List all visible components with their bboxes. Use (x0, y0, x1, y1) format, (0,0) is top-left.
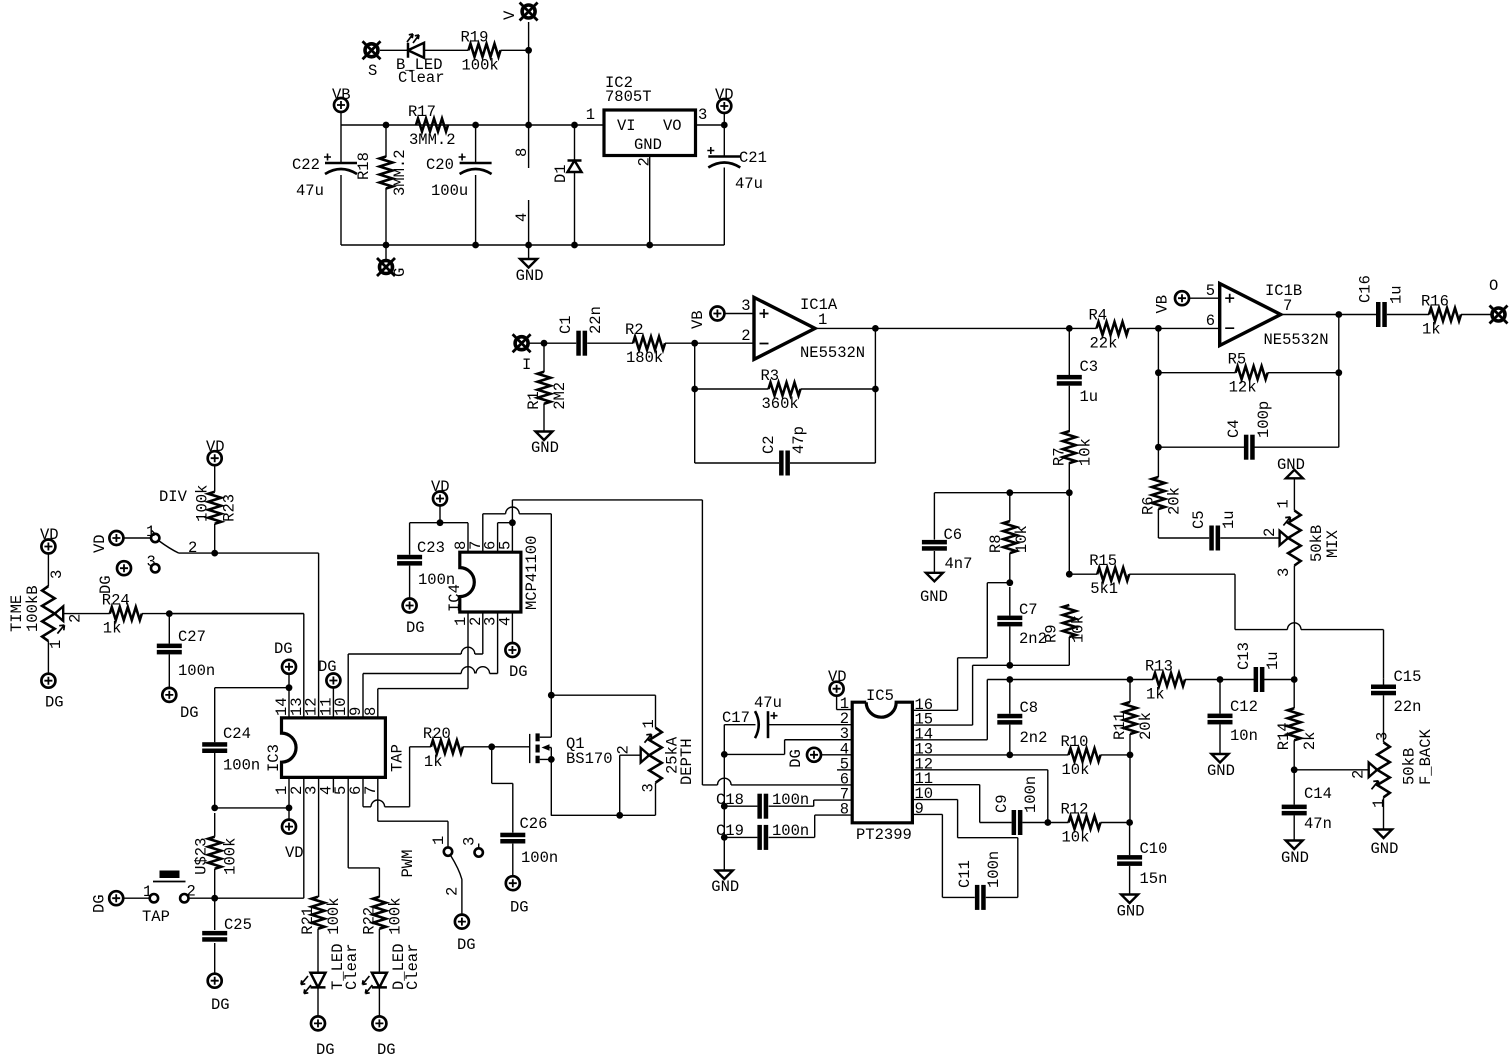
diode D1 (552, 161, 582, 184)
wire row 492 (934, 493, 1069, 575)
svg-text:47n: 47n (1304, 815, 1332, 833)
pin 8 IC3 label (362, 707, 380, 716)
resistor R2 (625, 321, 665, 367)
svg-text:3MM.2: 3MM.2 (409, 131, 456, 149)
svg-text:C14: C14 (1304, 785, 1332, 803)
svg-text:22k: 22k (1090, 334, 1118, 352)
svg-text:10k: 10k (1076, 438, 1094, 466)
svg-text:15n: 15n (1140, 870, 1168, 888)
wire VB to pin5 (1189, 297, 1220, 299)
svg-text:100p: 100p (1255, 401, 1273, 438)
node DG supply TAP (91, 891, 124, 913)
resistor R20 (423, 725, 463, 771)
svg-text:180k: 180k (626, 349, 663, 367)
resistor R24 (102, 592, 142, 638)
wire R24 right (142, 613, 304, 615)
svg-text:VD: VD (40, 526, 59, 544)
wire IC5 pin1 (837, 696, 853, 710)
capacitor C3 (1057, 358, 1098, 406)
pin 5 IC4 label (496, 541, 514, 550)
svg-text:4: 4 (513, 213, 531, 222)
pin 4 IC5 label (840, 740, 849, 758)
svg-text:DG: DG (180, 704, 199, 722)
resistor R17 (408, 103, 456, 149)
wire MIX pin3 down (1293, 566, 1295, 680)
wire R20-Q1 (463, 746, 530, 748)
ground GND C14 (1281, 841, 1309, 868)
node V connector (501, 3, 538, 21)
wire IC4 pin7 path (483, 507, 552, 695)
svg-text:20k: 20k (1137, 712, 1155, 740)
svg-text:GND: GND (1207, 762, 1235, 780)
svg-text:VB: VB (689, 310, 707, 329)
svg-text:Clear: Clear (343, 943, 361, 990)
junction rail-R18 (383, 122, 390, 129)
svg-text:C24: C24 (223, 725, 251, 743)
svg-text:R8: R8 (987, 534, 1005, 553)
svg-text:R16: R16 (1421, 293, 1449, 311)
svg-text:1: 1 (1370, 799, 1388, 808)
wire pin2 net (303, 777, 305, 898)
svg-text:1: 1 (47, 640, 65, 649)
wire C27 (168, 614, 170, 688)
svg-text:GND: GND (531, 439, 559, 457)
svg-text:R14: R14 (1275, 722, 1293, 750)
svg-text:R22: R22 (360, 907, 378, 935)
svg-text:U$23: U$23 (193, 838, 211, 875)
op-amp IC1A (741, 296, 865, 362)
capacitor C10 (1117, 840, 1167, 888)
junction TAP node (211, 895, 218, 902)
LED T_LED (301, 943, 361, 993)
op-amp IC1B (1206, 282, 1329, 349)
wire IC1B fb (1158, 328, 1338, 477)
wire R23 (214, 465, 216, 553)
svg-text:2n2: 2n2 (1020, 729, 1048, 747)
svg-text:10n: 10n (1230, 727, 1258, 745)
svg-text:1: 1 (1275, 499, 1293, 508)
svg-text:100kB: 100kB (24, 585, 42, 632)
svg-text:4n7: 4n7 (945, 555, 973, 573)
svg-text:47u: 47u (296, 182, 324, 200)
svg-text:VD: VD (91, 534, 109, 553)
svg-text:C7: C7 (1019, 601, 1038, 619)
junction DIV-R23 (211, 550, 218, 557)
resistor R4 (1089, 306, 1129, 352)
node DG supply DIV (97, 561, 131, 594)
svg-text:1: 1 (640, 719, 658, 728)
resistor R10 (1061, 733, 1101, 779)
capacitor C15 (1371, 668, 1421, 716)
junction R24-C27 (166, 610, 173, 617)
wire drain-depth (551, 695, 655, 728)
switch DIV (146, 488, 215, 572)
svg-text:100n: 100n (772, 791, 809, 809)
svg-text:R10: R10 (1061, 733, 1089, 751)
wire IC1B output (1254, 315, 1492, 448)
svg-text:C4: C4 (1225, 419, 1243, 438)
svg-text:Clear: Clear (398, 69, 445, 87)
junction Q1 drain (548, 692, 555, 699)
svg-text:DG: DG (91, 894, 109, 913)
junction C9-R12 (1044, 819, 1051, 826)
svg-text:DG: DG (510, 899, 529, 917)
pin 12 IC3 label (303, 697, 321, 716)
svg-text:NE5532N: NE5532N (800, 344, 865, 362)
svg-text:C9: C9 (993, 794, 1011, 813)
svg-text:VD: VD (715, 86, 734, 104)
wire pin16 row (0, 0, 1, 1)
node DG supply C23 (403, 599, 425, 638)
junction VD-C23 (437, 519, 444, 526)
capacitor C16 (1357, 275, 1406, 327)
resistor R12 (1061, 801, 1101, 847)
junction R5 left (1155, 369, 1162, 376)
wire VD-C23-pin8 (410, 506, 468, 599)
node O connector (1489, 277, 1508, 324)
svg-text:R23: R23 (221, 494, 239, 522)
svg-text:100n: 100n (418, 571, 455, 589)
pin 7 IC4 label (467, 541, 485, 550)
svg-text:C15: C15 (1394, 668, 1422, 686)
svg-text:C3: C3 (1080, 358, 1099, 376)
switch PWM (399, 836, 483, 914)
junction row679-C8 (1006, 676, 1013, 683)
svg-text:R9: R9 (1042, 624, 1060, 643)
resistor U$23 (193, 837, 240, 875)
wire pin12 net (215, 553, 319, 718)
capacitor C8 (997, 699, 1047, 747)
svg-text:R19: R19 (461, 28, 489, 46)
junction C19 node (721, 834, 728, 841)
junction row492-R8 (1006, 489, 1013, 496)
junction R12-C10 (1126, 819, 1133, 826)
svg-text:47u: 47u (735, 175, 763, 193)
junction C17-pin3 (721, 751, 728, 758)
wire IC5 pin6 row (702, 500, 852, 785)
ground GND C10 (1117, 895, 1145, 921)
svg-text:TIME: TIME (8, 595, 26, 632)
junction wiper-src (616, 812, 623, 819)
svg-text:2: 2 (741, 327, 750, 345)
wire TIME pin3 (47, 554, 49, 587)
svg-text:R7: R7 (1050, 447, 1068, 466)
svg-text:C27: C27 (178, 628, 206, 646)
svg-text:C13: C13 (1235, 642, 1253, 670)
junction gate node (488, 743, 495, 750)
svg-text:R11: R11 (1111, 712, 1129, 740)
capacitor C1 (557, 306, 605, 356)
resistor R9 (1042, 605, 1087, 643)
node DG supply C25 (208, 974, 230, 1014)
wire IC5 pin2 C17 row (724, 725, 852, 755)
svg-text:R20: R20 (423, 725, 451, 743)
pin 10 IC5 label (915, 785, 934, 803)
svg-text:1k: 1k (1146, 686, 1165, 704)
pin 2 IC5 label (840, 710, 849, 728)
LED D_LED (362, 943, 422, 993)
svg-text:O: O (1489, 277, 1498, 295)
ground GND C6 (920, 573, 948, 606)
svg-text:PWM: PWM (399, 850, 417, 878)
svg-text:BS170: BS170 (566, 750, 613, 768)
capacitor C19 (716, 822, 809, 850)
potentiometer DEPTH 25kA (615, 719, 697, 792)
node DG supply IC3 pin14 (274, 640, 296, 674)
junction I-R1 (541, 340, 548, 347)
junction R9-R15 (1066, 571, 1073, 578)
resistor R8 (987, 521, 1031, 553)
pin 1 IC5 label (840, 695, 849, 713)
wire C15 to pot (1383, 679, 1385, 743)
capacitor C2 (760, 426, 808, 475)
junction pin5-6 (509, 519, 516, 526)
node VB supply IC1B (1154, 291, 1190, 313)
junction C13 left (1217, 676, 1224, 683)
node DG supply PWM (455, 915, 476, 954)
svg-text:C6: C6 (944, 526, 963, 544)
wire R21-LED (317, 929, 319, 1017)
wire pin7 net (378, 777, 448, 847)
svg-text:I: I (522, 356, 531, 374)
ground GND power (516, 259, 544, 285)
resistor R15 (1089, 552, 1129, 598)
capacitor C5 (1190, 510, 1238, 550)
svg-text:C10: C10 (1140, 840, 1168, 858)
capacitor C24 (202, 725, 260, 775)
ground GND R1 (531, 432, 559, 458)
svg-text:10k: 10k (1069, 615, 1087, 643)
svg-text:PT2399: PT2399 (856, 826, 912, 844)
resistor R22 (360, 897, 404, 935)
pin 4 IC3 stub (332, 777, 334, 792)
node I connector (513, 334, 532, 374)
node VD supply at IC2 (715, 86, 734, 113)
svg-text:G: G (391, 268, 409, 277)
svg-text:100k: 100k (325, 897, 343, 934)
wire R8 to pin16 (913, 493, 1010, 711)
capacitor C26 (500, 815, 558, 867)
junction C18 node (721, 803, 728, 810)
pin 4 IC3 label (317, 786, 335, 795)
junction C13 right (1291, 676, 1298, 683)
wire pin11 (332, 688, 334, 718)
svg-text:C12: C12 (1230, 698, 1258, 716)
node DG supply C26 (506, 876, 529, 916)
wire TIME pin1 (47, 641, 49, 674)
label pin 4 (513, 213, 531, 222)
wire C24-down (215, 753, 289, 820)
wire S-LED row (380, 49, 529, 51)
capacitor C25 (202, 916, 252, 942)
svg-text:10k: 10k (1062, 761, 1090, 779)
svg-text:V: V (501, 10, 519, 20)
capacitor C23 (397, 539, 455, 589)
svg-text:100n: 100n (1022, 776, 1040, 813)
svg-text:C2: C2 (760, 435, 778, 454)
svg-text:3: 3 (147, 553, 156, 571)
junction R14-C14 (1291, 766, 1298, 773)
potentiometer TIME 100kB (8, 570, 85, 649)
wire R6 to C5 (1158, 509, 1279, 538)
junction fb left (691, 386, 698, 393)
resistor R3 (761, 367, 801, 413)
svg-text:GND: GND (1277, 456, 1305, 474)
svg-text:TAP: TAP (389, 744, 407, 772)
svg-text:DG: DG (457, 936, 476, 954)
svg-text:DG: DG (97, 575, 115, 594)
resistor R14 (1275, 708, 1319, 750)
wire IC5 pin4 (821, 754, 852, 756)
svg-text:1: 1 (586, 106, 595, 124)
capacitor C12 (1208, 698, 1258, 745)
wire VB to pin3 (724, 313, 754, 315)
svg-text:GND: GND (920, 588, 948, 606)
svg-text:R21: R21 (299, 907, 317, 935)
resistor R19 (461, 28, 501, 74)
node DG supply C27 (162, 688, 198, 722)
svg-text:22n: 22n (587, 306, 605, 334)
svg-text:10k: 10k (1013, 525, 1031, 553)
svg-text:DG: DG (45, 694, 64, 712)
svg-text:C17: C17 (722, 709, 750, 727)
wire IC4 pin3 down (497, 612, 499, 674)
svg-text:3: 3 (1275, 568, 1293, 577)
svg-text:DG: DG (316, 1041, 335, 1058)
svg-text:2M2: 2M2 (551, 382, 569, 410)
junction C7-row665 (1006, 662, 1013, 669)
svg-text:50kB: 50kB (1401, 748, 1419, 785)
junction fb right (872, 386, 879, 393)
svg-text:1k: 1k (424, 753, 443, 771)
wire R12 right (1101, 822, 1130, 824)
svg-text:6: 6 (1206, 312, 1215, 330)
wire input row (529, 343, 755, 431)
ground GND C12 (1207, 754, 1235, 780)
pin 13 IC5 label (915, 740, 934, 758)
resistor R13 (1145, 658, 1185, 704)
svg-text:100n: 100n (521, 849, 558, 867)
resistor R18 (355, 149, 409, 196)
junction rail-V (525, 122, 532, 129)
capacitor C14 (1282, 785, 1332, 833)
node DG supply IC3 pin11 (318, 658, 340, 688)
svg-text:VI: VI (617, 117, 636, 135)
resistor R7 (1050, 431, 1094, 466)
wire IC5 pin7 (769, 800, 853, 806)
resistor R16 (1421, 293, 1461, 339)
capacitor C4 (1225, 401, 1273, 460)
resistor R11 (1111, 702, 1155, 740)
svg-text:C21: C21 (739, 149, 767, 167)
svg-text:3: 3 (698, 106, 707, 124)
junction out-C3 (872, 325, 1073, 332)
svg-text:R2: R2 (625, 321, 644, 339)
svg-text:1: 1 (818, 311, 827, 329)
potentiometer MIX 50kB (1261, 499, 1342, 577)
IC IC3 TAP (265, 718, 407, 778)
svg-text:3: 3 (741, 297, 750, 315)
svg-text:2: 2 (188, 539, 197, 557)
ground GND C18/C19 (711, 871, 739, 897)
svg-text:100k: 100k (194, 485, 212, 522)
svg-text:2: 2 (444, 887, 462, 896)
svg-text:12k: 12k (1229, 379, 1257, 397)
resistor R23 (194, 485, 239, 524)
svg-text:DG: DG (406, 619, 425, 637)
node DG supply D_LED (372, 1016, 395, 1058)
pin 7 IC5 label (840, 786, 849, 804)
svg-text:MIX: MIX (1324, 529, 1342, 558)
svg-text:C26: C26 (520, 815, 548, 833)
wire pin10 net (348, 647, 483, 718)
wire pin5 net (348, 777, 379, 897)
IC IC2 7805T (586, 74, 708, 167)
wire VD-DIVpin1 (123, 537, 151, 539)
svg-text:100n: 100n (178, 662, 215, 680)
capacitor C27 (157, 628, 215, 680)
wire pin13 row (913, 754, 1069, 756)
label DIV (0, 0, 1, 1)
svg-text:3: 3 (1374, 732, 1392, 741)
junction R8-C7 (1006, 579, 1013, 586)
potentiometer F_BACK 50kB (1350, 728, 1436, 808)
junction VO-C21 (721, 122, 728, 129)
svg-text:C25: C25 (224, 916, 252, 934)
pin 14 IC5 label (915, 726, 934, 744)
svg-text:R15: R15 (1089, 552, 1117, 570)
svg-text:MCP41100: MCP41100 (523, 536, 541, 610)
wire pin8 net (378, 689, 468, 718)
junction C24-U23 (211, 805, 218, 812)
wire R11 column (1101, 680, 1131, 823)
junction gnd rail dots (383, 242, 653, 249)
svg-text:47p: 47p (790, 426, 808, 454)
wire IC1A feedback loop (695, 328, 876, 463)
pin 6 IC3 label (347, 786, 365, 795)
svg-text:7805T: 7805T (605, 88, 652, 106)
wire gate-C26 (492, 747, 513, 876)
capacitor C18 (716, 791, 809, 819)
svg-text:GND: GND (1117, 903, 1145, 921)
pin 7 IC3 label (362, 786, 380, 795)
svg-text:DIV: DIV (159, 488, 188, 506)
pin 14 IC3 label (273, 697, 291, 716)
svg-text:2: 2 (1350, 770, 1368, 779)
node DG supply T_LED (311, 1016, 335, 1058)
node VD supply IC4 (431, 478, 450, 506)
pin 13 IC3 label (288, 697, 306, 716)
ground GND F_BACK (1371, 830, 1399, 859)
pin 9 IC5 label (915, 800, 924, 818)
svg-text:C11: C11 (956, 860, 974, 888)
node VD supply IC5 (828, 668, 847, 696)
svg-text:1: 1 (430, 836, 448, 845)
svg-text:C1: C1 (557, 315, 575, 334)
svg-text:Clear: Clear (404, 943, 422, 990)
junction rail-C20 (472, 122, 479, 129)
junction IC1B out (1335, 311, 1342, 318)
wire V supply rail (341, 22, 724, 260)
junction pin14 (286, 684, 293, 691)
svg-text:100n: 100n (985, 851, 1003, 888)
svg-text:3: 3 (48, 570, 66, 579)
node VD supply DIV (91, 531, 123, 553)
svg-text:R13: R13 (1145, 658, 1173, 676)
svg-text:C23: C23 (417, 539, 445, 557)
capacitor C7 (997, 601, 1047, 648)
wire depth bottom (551, 755, 656, 815)
